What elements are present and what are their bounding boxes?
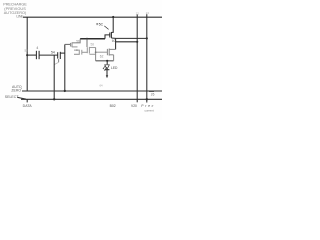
transistor 56 (gate bar + channel) [70, 43, 72, 47]
svg-text:62: 62 [100, 54, 104, 58]
node: junction dot at (64.8,90.7) [64, 90, 66, 92]
wire: transistor 62 drain arm up-right [109, 48, 115, 50]
wire: precharge top rail [23, 16, 162, 18]
node: dot at (76.9,49.8) [76, 49, 78, 51]
wire: v147 vertical [146, 14, 148, 102]
node: junction dot at (95.6,52.3) [95, 51, 97, 53]
node: junction dot at (146.8,38.4) [146, 37, 148, 39]
node: junction dot at (137.2,41.8) [136, 41, 138, 43]
node: junction dot at (146.8,99.3) [146, 98, 148, 100]
svg-text:B02: B02 [110, 104, 116, 108]
svg-text:58: 58 [91, 42, 95, 46]
label 5C with lead line [96, 23, 98, 25]
wire: transistor 56 top arm to corner up [72, 39, 80, 43]
node: junction dot at (113.2,17) [112, 16, 114, 18]
svg-text:54: 54 [51, 50, 55, 54]
wire: select/data line [21, 98, 162, 100]
svg-text:24: 24 [146, 11, 150, 15]
svg-text:4: 4 [36, 46, 38, 50]
wire: right corner of LED rail up [113, 55, 115, 61]
autozero labels [11, 85, 22, 92]
wire: LED rail y60.8 [96, 60, 114, 62]
wire: capacitor right lead to transistor 54 gate [39, 54, 57, 56]
svg-text:SELECT: SELECT [5, 95, 19, 99]
precharge line label [3, 3, 27, 19]
superscript tick after SELECT [16, 94, 19, 97]
wire: data vertical from gate wire tap down to select/data line [53, 55, 55, 99]
wire: v95.6 from transistor 58 arm down to LED rail [95, 48, 97, 61]
capacitor C2 box (left bracket) [74, 50, 79, 54]
transistor 58 (gate bar + channel) [86, 47, 88, 53]
wire: transistor 60 gate lead with step [105, 35, 110, 39]
svg-text:5C: 5C [99, 23, 104, 27]
wire: transistor 58 source arm [89, 53, 95, 55]
wire: transistor 62 source arm down-right [109, 54, 113, 56]
wire: transistor 54 drain arm to v65 [60, 52, 65, 54]
node: junction dot at (54.2,99.3) [53, 98, 55, 100]
LED emission arrows [103, 65, 106, 69]
wire: transistor 58 top arm [89, 47, 95, 49]
LED anode lead [106, 61, 108, 65]
svg-text:LINE: LINE [16, 15, 24, 19]
svg-text:52: 52 [25, 49, 29, 53]
wire: W2 y41.8 to v137 [116, 41, 138, 43]
svg-text:ZERO: ZERO [11, 88, 21, 92]
wire: transistor 56 bottom arm [72, 46, 78, 48]
svg-text:Prec: Prec [141, 104, 153, 108]
node: junction dot at (108,60.8) [106, 60, 108, 62]
svg-text:DATA: DATA [23, 104, 33, 108]
svg-text:LED: LED [111, 66, 118, 70]
wire: capacitor left lead [27, 54, 36, 56]
wire: transistor 62 gate lead [96, 51, 108, 53]
capacitor C2 second plate [81, 50, 83, 55]
transistor 54 (gate bar + channel) [57, 52, 59, 58]
svg-text:64: 64 [100, 83, 104, 87]
svg-text:60: 60 [112, 39, 116, 43]
LED symbol (triangle + cathode bar) [105, 65, 110, 70]
LED cathode lead with arrowhead [106, 70, 108, 76]
label 26 with dash at right of autozero line [149, 90, 154, 92]
svg-text:V20: V20 [131, 104, 137, 108]
wire: left vertical from rail to autozero line [26, 17, 28, 91]
wire: v65 vertical from stair to autozero line [64, 44, 66, 91]
wire: faint bend joining data vertical [54, 62, 58, 64]
wire: transistor 60 drain arm up to rail [111, 17, 113, 32]
wire: v87 down to transistor 58 gate [86, 39, 88, 47]
wire: transistor 54 source stub [58, 59, 60, 62]
transistor 62 (gate bar + channel) [106, 49, 108, 55]
wire: thick gate rail y38.6 [80, 38, 105, 40]
svg-text:current: current [145, 109, 155, 113]
capacitor C (plates) [35, 51, 37, 59]
svg-text:22: 22 [136, 11, 140, 15]
wire: v115.6 down to transistor 62 drain arm [115, 38, 117, 49]
transistor 60 top (gate bar + channel) [109, 33, 111, 38]
wire: transistor 60 source to v115.6 [111, 37, 115, 39]
wire: v137 vertical [136, 15, 138, 103]
superscript tick after ZERO [20, 87, 23, 90]
wire: W1 y38.4 to v147 [116, 37, 147, 39]
svg-text:26: 26 [151, 93, 155, 97]
node: junction dot at (87,38.6) [86, 38, 88, 40]
wire: gate lead y52.3 from box to transistor 58 gate bar [82, 51, 88, 53]
wire: data stub below line [26, 99, 28, 102]
node: junction dot on left vertical at capacitor tap [26, 54, 28, 56]
wire: select label dash [18, 97, 27, 99]
wire: autozero line [22, 90, 162, 92]
wire: stair horizontal to transistor 56 gate [65, 43, 71, 45]
